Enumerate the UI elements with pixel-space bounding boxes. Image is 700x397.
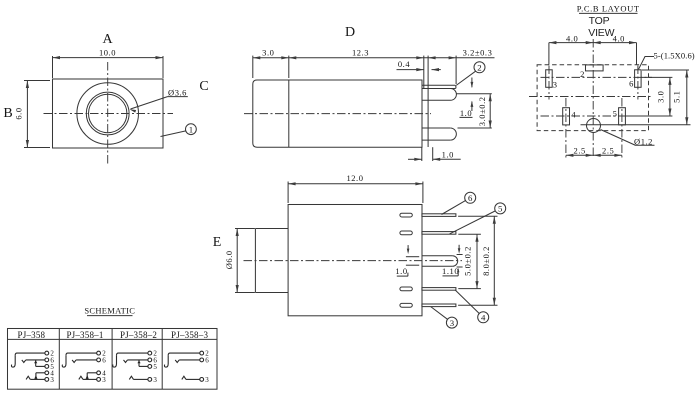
svg-text:2.5: 2.5 xyxy=(602,145,614,155)
svg-text:6.0: 6.0 xyxy=(14,107,24,119)
svg-text:D: D xyxy=(345,25,355,40)
svg-text:3.0±0.2: 3.0±0.2 xyxy=(477,96,487,126)
svg-text:PJ–358–1: PJ–358–1 xyxy=(66,330,103,340)
svg-text:6: 6 xyxy=(102,357,106,365)
svg-text:5: 5 xyxy=(613,108,618,118)
svg-text:C: C xyxy=(199,79,208,94)
svg-text:PJ–358: PJ–358 xyxy=(18,330,46,340)
svg-text:5: 5 xyxy=(498,204,503,214)
svg-text:PJ–358–3: PJ–358–3 xyxy=(171,330,208,340)
svg-text:VIEW: VIEW xyxy=(588,27,614,39)
svg-text:4.0: 4.0 xyxy=(566,34,578,44)
svg-text:1.0: 1.0 xyxy=(395,266,407,276)
svg-text:1: 1 xyxy=(189,124,193,134)
svg-text:6: 6 xyxy=(205,357,209,365)
svg-text:P.C.B LAYOUT: P.C.B LAYOUT xyxy=(577,4,640,14)
svg-text:PJ–358–2: PJ–358–2 xyxy=(120,330,157,340)
svg-text:4.0: 4.0 xyxy=(613,34,625,44)
svg-text:3: 3 xyxy=(450,318,455,328)
svg-text:3.0: 3.0 xyxy=(656,91,666,103)
svg-text:10.0: 10.0 xyxy=(99,48,116,58)
svg-text:4: 4 xyxy=(571,109,576,119)
svg-text:SCHEMATIC: SCHEMATIC xyxy=(84,306,135,316)
svg-text:E: E xyxy=(213,235,222,250)
svg-text:5: 5 xyxy=(153,363,157,371)
svg-text:5.0±0.2: 5.0±0.2 xyxy=(462,246,472,276)
svg-text:3.2±0.3: 3.2±0.3 xyxy=(463,47,493,57)
svg-text:6: 6 xyxy=(629,79,634,89)
svg-text:2: 2 xyxy=(580,69,585,79)
svg-text:Ø1.2: Ø1.2 xyxy=(634,136,653,146)
svg-text:2.5: 2.5 xyxy=(574,145,586,155)
svg-text:3.0: 3.0 xyxy=(262,47,274,57)
svg-text:1.0: 1.0 xyxy=(442,149,454,159)
svg-text:A: A xyxy=(102,32,113,47)
svg-text:5.1: 5.1 xyxy=(672,91,682,103)
svg-text:12.0: 12.0 xyxy=(346,173,363,183)
svg-text:2: 2 xyxy=(477,63,481,73)
svg-text:4: 4 xyxy=(481,313,486,323)
svg-text:8.0±0.2: 8.0±0.2 xyxy=(481,246,491,276)
svg-text:3: 3 xyxy=(553,80,558,90)
svg-text:3: 3 xyxy=(50,376,54,384)
svg-text:6: 6 xyxy=(468,193,473,203)
svg-text:Ø6.0: Ø6.0 xyxy=(224,250,234,269)
svg-text:3: 3 xyxy=(153,376,157,384)
svg-text:5-(1.5X0.6): 5-(1.5X0.6) xyxy=(654,51,695,61)
svg-text:0.4: 0.4 xyxy=(398,59,410,69)
svg-text:Ø3.6: Ø3.6 xyxy=(168,87,187,97)
svg-text:TOP: TOP xyxy=(589,15,610,27)
svg-text:1.10: 1.10 xyxy=(442,266,459,276)
svg-text:B: B xyxy=(3,106,12,121)
svg-text:3: 3 xyxy=(102,376,106,384)
svg-text:3: 3 xyxy=(205,376,209,384)
svg-text:12.3: 12.3 xyxy=(352,47,369,57)
svg-text:1.0: 1.0 xyxy=(460,108,472,118)
